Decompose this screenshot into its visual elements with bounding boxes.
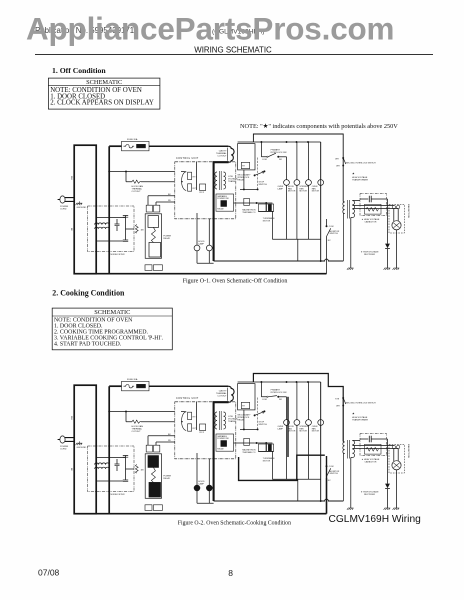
wire relay link 2 (156, 202, 175, 205)
wire outer bottom rail (96, 273, 326, 275)
transformer LVT core (219, 411, 221, 430)
svg-text:NC: NC (328, 480, 331, 482)
svg-text:MOTOR: MOTOR (263, 460, 271, 462)
svg-text:1. Off Condition: 1. Off Condition (52, 66, 106, 75)
thermal cutout TCO1 (228, 146, 234, 162)
svg-text:SWITCH: SWITCH (330, 233, 339, 235)
noise filter boundary (88, 206, 135, 252)
relay RY1 arc (182, 172, 187, 191)
resistor bleed box (365, 204, 382, 214)
wire diode drop (387, 199, 389, 268)
diode HV rectifier (385, 244, 390, 249)
node branch (125, 171, 127, 173)
capacitor HV (360, 198, 368, 200)
diode HV rectifier (385, 484, 390, 489)
svg-text:RELAY: RELAY (217, 208, 224, 211)
svg-text:SECOND. INTERLOCK SWITCH: SECOND. INTERLOCK SWITCH (346, 162, 376, 164)
magnetron boundary (389, 205, 405, 234)
power relay terminal b (154, 445, 160, 452)
svg-text:COM: COM (262, 399, 267, 401)
thermal cutout TCO1 (228, 386, 234, 402)
svg-text:NOISE FILTER: NOISE FILTER (111, 494, 126, 496)
wire rail B (238, 381, 321, 383)
motor M3 (306, 420, 312, 426)
power cord loop (74, 385, 96, 514)
svg-text:RY-2: RY-2 (200, 192, 205, 194)
svg-text:TRANSFORMER: TRANSFORMER (352, 179, 369, 182)
door sensing switch box (238, 384, 255, 410)
motor M4 (318, 180, 324, 186)
svg-text:CUTOUT: CUTOUT (132, 431, 142, 433)
wire magnetron filament (394, 209, 398, 221)
thermal cutout magnetron box (244, 438, 250, 445)
hv capacitor boundary (360, 434, 387, 456)
node bottom (320, 500, 322, 502)
power relay upper contact (148, 216, 159, 228)
wire ttm top (254, 202, 272, 204)
transformer HVT primary (343, 202, 345, 213)
node hv tap (342, 165, 344, 167)
switch stop (255, 171, 264, 175)
svg-text:CUTOUT: CUTOUT (217, 396, 227, 398)
wire magnetron ground (396, 230, 398, 268)
wire magnetron filament (394, 449, 398, 461)
svg-text:SWITCH: SWITCH (330, 473, 339, 475)
svg-text:SWITCH: SWITCH (259, 184, 268, 186)
wire hvt secondary taps (351, 201, 398, 269)
wire top rail to fuse (109, 385, 121, 387)
capacitor HV (360, 438, 368, 440)
svg-text:2. Cooking Condition: 2. Cooking Condition (52, 289, 125, 298)
wire outer top rail (253, 374, 343, 442)
svg-text:NOISE FILTER: NOISE FILTER (111, 254, 126, 256)
plug AC supply (58, 436, 75, 443)
wire to control unit (109, 411, 175, 413)
svg-text:RY-2: RY-2 (200, 432, 205, 434)
wire outer bottom rail (96, 513, 326, 515)
wire bold cook path A (287, 397, 289, 457)
svg-text:MOTOR: MOTOR (312, 431, 320, 433)
transformer HVT primary (343, 442, 345, 453)
node rail b1 (260, 381, 262, 383)
turntable motor box a (258, 204, 266, 211)
node rail b2 (286, 381, 288, 383)
linkage door dash (257, 398, 259, 430)
node line2 tap (108, 171, 110, 173)
fuse F1 element (124, 144, 135, 147)
capacitor C2 mid (115, 224, 120, 226)
svg-text:SWITCH: SWITCH (259, 424, 268, 426)
wire return riser (297, 239, 299, 261)
motor M3 (306, 180, 312, 186)
inductor L1 (95, 223, 110, 225)
wire stem motor 4 down (320, 425, 322, 501)
relay RY-2 coil box (200, 184, 206, 191)
inductor L2 (95, 467, 110, 469)
node rail b2 (286, 141, 288, 143)
svg-text:Figure O-1. Oven Schematic-Off: Figure O-1. Oven Schematic-Off Condition (183, 277, 288, 284)
svg-text:POWER SW: POWER SW (217, 198, 228, 200)
svg-text:MOTOR: MOTOR (288, 431, 296, 433)
turntable motor box b (267, 204, 274, 211)
wire relay feeds (181, 172, 186, 182)
wire stem motor 3 down (308, 425, 310, 479)
magnetron tube (392, 461, 401, 470)
power cord loop (74, 145, 96, 274)
capacitor C1 (123, 456, 128, 458)
svg-text:INTERLOCK SW: INTERLOCK SW (271, 152, 287, 154)
relay RY2 contact (188, 184, 192, 191)
svg-text:BK: BK (70, 468, 72, 471)
svg-text:SCHEMATIC: SCHEMATIC (86, 79, 122, 86)
wire hood lamp stems (197, 453, 209, 485)
svg-text:COM: COM (262, 159, 267, 161)
relay RY1 contact (188, 412, 192, 419)
wire stem motor 3 (308, 142, 310, 180)
wire bold cook path B (239, 455, 325, 480)
svg-text:CONTROL UNIT: CONTROL UNIT (176, 157, 199, 160)
wire to control unit (109, 171, 175, 173)
svg-text:CAPACITOR: CAPACITOR (365, 221, 377, 224)
wire relay link 2 (156, 442, 175, 445)
svg-text:CUTOUT: CUTOUT (217, 156, 227, 158)
motor M2 (294, 180, 300, 186)
svg-text:COM: COM (329, 466, 334, 468)
magnetron boundary (389, 445, 405, 474)
svg-text:THERMAL CO: THERMAL CO (242, 211, 255, 214)
svg-text:RELAY: RELAY (163, 477, 170, 480)
svg-text:2. CLOCK APPEARS ON DISPLAY: 2. CLOCK APPEARS ON DISPLAY (50, 100, 154, 107)
capacitor C3 (123, 240, 128, 242)
wire fuse to cutout (149, 385, 228, 387)
svg-text:CORD: CORD (60, 208, 67, 210)
relay secondary interlock box (241, 402, 249, 408)
hv capacitor boundary (360, 194, 387, 216)
relay variable power box (216, 434, 234, 451)
svg-text:CGLMV169H Wiring: CGLMV169H Wiring (329, 514, 422, 525)
svg-text:GROUND: GROUND (77, 447, 87, 449)
wire top rail to fuse (109, 145, 121, 147)
node branch (125, 411, 127, 413)
wire stem motor 4 (320, 382, 322, 420)
svg-text:FUSE 20A: FUSE 20A (127, 138, 138, 141)
svg-text:FUSE 20A: FUSE 20A (127, 378, 138, 381)
svg-text:4. START PAD TOUCHED.: 4. START PAD TOUCHED. (54, 341, 122, 347)
transformer LVT primary (215, 172, 217, 189)
lamp hood 2 (206, 245, 212, 251)
transformer LVT secondary (224, 172, 226, 189)
wire ttm bottom (258, 451, 273, 453)
svg-text:TRANS: TRANS (228, 420, 236, 423)
wire fuse to cutout (149, 145, 228, 147)
magnetron filament terminals (392, 205, 395, 208)
control unit boundary (175, 162, 236, 219)
resistor bleed box (365, 444, 382, 454)
switch monitor (326, 237, 328, 239)
power relay spring (151, 467, 155, 482)
svg-text:RY: RY (242, 406, 245, 408)
wire center vertical (196, 402, 198, 430)
svg-text:07/08: 07/08 (38, 568, 60, 578)
power relay outline (145, 214, 161, 258)
power relay foot b (153, 265, 162, 271)
svg-text:GROUND: GROUND (77, 207, 87, 209)
svg-text:WH: WH (70, 176, 72, 180)
wire hood lamp stems (197, 213, 209, 245)
svg-text:THERMAL CO: THERMAL CO (242, 451, 255, 454)
svg-text:COM: COM (329, 226, 334, 228)
table 1 schematic box (48, 78, 159, 109)
schematic figure O-1 off condition (58, 134, 410, 274)
svg-text:WH: WH (336, 165, 340, 167)
wire filter top (96, 216, 125, 218)
svg-text:RECTIFIER: RECTIFIER (364, 254, 375, 256)
relay variable power coil (221, 201, 227, 207)
svg-text:INTERLOCK SW: INTERLOCK SW (271, 392, 287, 394)
svg-text:RELAY: RELAY (163, 237, 170, 240)
schematic figure O-2 cooking condition (58, 374, 410, 514)
wire relay link 1 (148, 196, 175, 205)
svg-text:1M: 1M (141, 230, 144, 232)
svg-text:POWER SW: POWER SW (217, 438, 228, 440)
transformer LVT secondary (224, 412, 226, 429)
inductor L2 (95, 227, 110, 229)
wire stem motor 4 down (320, 185, 322, 261)
svg-text:MOTOR: MOTOR (300, 431, 308, 433)
wire right drop (320, 142, 322, 261)
switch stop (255, 411, 264, 415)
relay RY1 contact (188, 172, 192, 179)
power relay lower contact (149, 482, 161, 497)
wire stem motor 1 (286, 397, 288, 420)
wire cutout down feed (214, 402, 229, 501)
svg-text:★: ★ (352, 172, 355, 176)
table 1 header rule (48, 85, 159, 87)
thermal cutout hood zigzag (132, 180, 141, 183)
svg-text:TRANSFORMER: TRANSFORMER (352, 419, 369, 422)
fuse F1 holder (137, 384, 146, 388)
ground power cord (76, 443, 83, 445)
svg-text:Figure O-2. Oven Schematic-Coo: Figure O-2. Oven Schematic-Cooking Condi… (178, 521, 291, 527)
svg-text:CAPACITOR: CAPACITOR (365, 461, 377, 464)
svg-text:SECOND. INTERLOCK SWITCH: SECOND. INTERLOCK SWITCH (346, 402, 376, 404)
svg-text:RECTIFIER: RECTIFIER (364, 494, 375, 496)
ground HVT (347, 508, 354, 510)
transformer HVT secondary (352, 201, 354, 218)
table 2 schematic box (52, 308, 172, 350)
svg-text:MOTOR: MOTOR (300, 191, 308, 193)
switch monitor (326, 477, 328, 479)
wire hood lamp bottom (197, 491, 214, 503)
svg-text:WH: WH (70, 416, 72, 420)
svg-text:8: 8 (228, 568, 233, 578)
svg-text:CONTROL UNIT: CONTROL UNIT (176, 397, 199, 400)
wire line 2 vertical (108, 146, 110, 274)
node rail b1 (260, 141, 262, 143)
wire return riser (297, 479, 299, 501)
transformer LVT primary (215, 412, 217, 429)
svg-text:CUTOUT: CUTOUT (132, 191, 142, 193)
resistor R1 1M (135, 225, 138, 234)
svg-text:NO: NO (279, 399, 282, 401)
ground magnetron (393, 508, 400, 510)
wire stem motor 4 (320, 142, 322, 180)
power relay terminal a (146, 445, 152, 452)
control unit boundary (175, 402, 236, 459)
fuse F1 holder (137, 144, 146, 148)
wire relay link 1 (148, 436, 175, 445)
wire relay feeds (181, 412, 186, 422)
wire magnetron ground (396, 470, 398, 508)
wire ground stub (79, 201, 81, 203)
wire outer top rail (253, 134, 343, 202)
fuse F1 element (124, 385, 135, 388)
relay variable power box (216, 194, 234, 211)
wire inner bottom rail (214, 499, 344, 501)
ground diode (384, 268, 391, 270)
wire stem motor 2 down (296, 185, 298, 239)
switch primary interlock (261, 142, 267, 157)
svg-text:MOTOR: MOTOR (263, 220, 271, 222)
wire stem motor 1 down (286, 185, 288, 239)
magnetron tube (392, 221, 401, 230)
wire stem motor 2 (296, 142, 298, 180)
power relay foot a (145, 265, 152, 271)
wire filter cross (126, 221, 135, 236)
svg-text:LAMP: LAMP (198, 243, 204, 246)
motor M4 (318, 420, 324, 426)
svg-text:WH: WH (336, 405, 340, 407)
resistor bleed zigzag (366, 447, 378, 451)
wire ttm feed (234, 442, 255, 444)
svg-text:LAMP: LAMP (198, 483, 204, 486)
power relay terminal a (146, 205, 152, 212)
magnetron filament terminals (392, 445, 395, 448)
wire branch hood cutout (126, 412, 175, 422)
svg-text:P-HI: P-HI (335, 398, 339, 400)
capacitor C1 (123, 216, 128, 218)
relay variable power coil (221, 441, 227, 447)
node line2 tap (108, 411, 110, 413)
relay secondary interlock box (241, 162, 249, 168)
power relay foot b (153, 505, 162, 511)
switch primary interlock (261, 382, 267, 397)
switch secondary interlock (343, 398, 346, 404)
wire ttm top (254, 442, 272, 444)
svg-text:NOTE: "★" indicates components: NOTE: "★" indicates components with pote… (240, 123, 398, 130)
wire stop feed (240, 410, 258, 430)
wire hvt secondary taps (351, 441, 398, 509)
capacitor C3 (123, 480, 128, 482)
power relay outline (145, 454, 161, 499)
svg-text:1M: 1M (141, 470, 144, 472)
wire rail B (238, 141, 321, 143)
wire ground stub (79, 441, 81, 443)
svg-text:NO: NO (279, 159, 282, 161)
motor M1 (284, 420, 290, 426)
power relay upper contact (148, 456, 159, 468)
turntable motor box b (267, 444, 274, 451)
ground magnetron (393, 268, 400, 270)
fuse F1 box (122, 141, 150, 150)
wire motor return rail (272, 212, 320, 240)
resistor R1 1M (135, 465, 138, 474)
node hv tap (342, 405, 344, 407)
wire stem motor 3 down (308, 185, 310, 239)
node rail b3 (296, 141, 298, 143)
wire inner bottom rail (214, 259, 344, 261)
svg-text:MOTOR: MOTOR (288, 191, 296, 193)
wire ttm bottom (258, 211, 273, 213)
wire bold monitor drop (326, 456, 328, 478)
lamp hood 1 (194, 485, 200, 491)
lamp hood 1 (194, 245, 200, 251)
lamp hood 2 (206, 485, 212, 491)
svg-text:MOTOR: MOTOR (312, 191, 320, 193)
transformer HVT secondary (352, 441, 354, 458)
power relay terminal b (154, 205, 160, 212)
node rail b4 (307, 141, 309, 143)
node bottom (320, 260, 322, 262)
relay RY-2 coil box (200, 424, 206, 431)
turntable motor bar (268, 444, 271, 451)
linkage door dash (257, 158, 259, 190)
fuse F1 box (122, 381, 150, 390)
svg-text:★: ★ (352, 412, 355, 416)
svg-text:MAGNETRON: MAGNETRON (407, 204, 410, 219)
svg-text:LAMP: LAMP (278, 427, 284, 430)
node rail b4 (307, 381, 309, 383)
wire stem motor 2 (296, 382, 298, 420)
svg-text:BK: BK (70, 228, 72, 231)
wire right drop (320, 382, 322, 501)
ground power cord (76, 203, 83, 205)
relay RY2 contact (188, 424, 192, 431)
power relay lower contact (149, 242, 161, 257)
relay RY1 arc (182, 412, 187, 431)
svg-text:LAMP: LAMP (278, 187, 284, 190)
transformer HVT core (348, 440, 350, 459)
power relay foot a (145, 505, 152, 511)
thermal cutout hood zigzag (132, 420, 141, 423)
transformer LVT core (219, 171, 221, 190)
svg-text:SCHEMATIC: SCHEMATIC (94, 309, 130, 316)
noise filter boundary (88, 446, 135, 492)
table 2 header rule (52, 315, 172, 317)
svg-text:WH: WH (335, 158, 339, 160)
wire diode drop (387, 439, 389, 508)
wire ttm feed (234, 202, 255, 204)
capacitor C2 mid (115, 464, 120, 466)
wire line 2 vertical (108, 386, 110, 514)
wire monitor riser (326, 478, 328, 514)
motor M2 (294, 420, 300, 426)
node rail b3 (296, 381, 298, 383)
wire hood lamp bottom (197, 251, 214, 263)
wire stem motor 2 down (296, 425, 298, 479)
wire stem motor 1 (286, 157, 288, 180)
svg-text:MAGNETRON: MAGNETRON (407, 444, 410, 459)
wire stem motor 1 down (286, 425, 288, 479)
svg-text:AppliancePartsPros.com: AppliancePartsPros.com (26, 12, 394, 47)
wire motor return rail (272, 452, 320, 480)
wire branch hood cutout (126, 172, 175, 182)
wire stop feed (240, 170, 258, 190)
svg-text:CORD: CORD (60, 448, 67, 450)
wire stem motor 3 (308, 382, 310, 420)
wire center vertical (196, 162, 198, 190)
ground diode (384, 508, 391, 510)
